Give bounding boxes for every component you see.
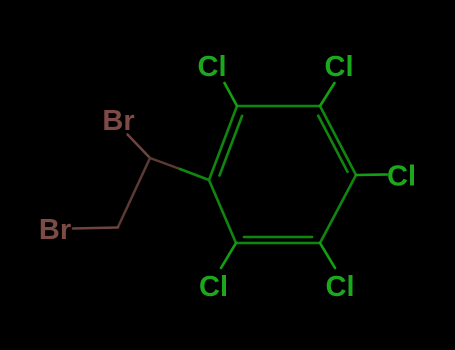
wire inner double-bond line of TR-R: [318, 116, 347, 172]
wire ring edge BL-L: [209, 180, 236, 243]
wire bond TR vertex to Cl label: [320, 83, 335, 106]
wire ring edge BR-BL (bottom, double): [236, 242, 320, 245]
wire bond C7 to ring L vertex (green half): [180, 169, 209, 180]
wire bond C7 to ring L vertex (maroon half): [150, 158, 180, 169]
wire bond R vertex to Cl label: [356, 173, 387, 176]
wire inner double-bond line of BR-BL: [244, 236, 312, 239]
svg-text:Cl: Cl: [387, 161, 416, 193]
svg-text:Cl: Cl: [325, 51, 354, 83]
wire bond TL vertex to Cl label: [225, 83, 238, 106]
wire bond BL vertex to Cl label: [221, 243, 236, 268]
wire bond C8 to Br(bottom): [73, 228, 118, 229]
wire bond Br(top) to C7: [128, 135, 151, 159]
atom labels: [39, 51, 416, 303]
wire ring edge R-BR: [320, 175, 356, 243]
substituent bonds to Cl: [221, 83, 387, 268]
wire ring edge TR-R (double): [320, 106, 356, 175]
chain bonds (1,2-dibromoethyl group): [73, 135, 180, 229]
benzene ring C1-C6: [209, 106, 356, 243]
wire bond BR vertex to Cl label: [320, 243, 335, 268]
svg-text:Cl: Cl: [199, 271, 228, 303]
wire ring edge L-TL (double): [209, 106, 237, 180]
wire inner double-bond line of L-TL: [220, 116, 243, 176]
wire bond C7-C8: [118, 158, 150, 227]
svg-text:Br: Br: [39, 214, 71, 246]
svg-text:Cl: Cl: [198, 51, 227, 83]
wire ring edge TL-TR (top): [237, 105, 320, 108]
svg-text:Cl: Cl: [326, 271, 355, 303]
svg-text:Br: Br: [102, 105, 134, 137]
